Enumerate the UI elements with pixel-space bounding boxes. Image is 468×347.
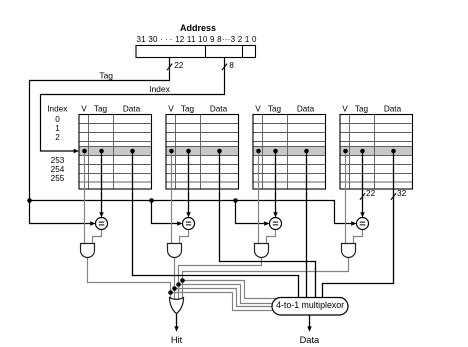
wire tag bank 4 to comparator: [362, 151, 364, 213]
arrow index into bank 1: [74, 149, 79, 153]
arrow tag into comparator 1: [99, 212, 103, 217]
cache bank 3 grid: [253, 115, 326, 190]
svg-text:32: 32: [397, 188, 407, 198]
svg-text:Tag: Tag: [99, 70, 113, 80]
arrow hit: [174, 326, 178, 331]
wire OR input stub 1: [170, 293, 172, 302]
and-gate G1: [81, 244, 95, 258]
node bank2 data: [217, 149, 222, 154]
node bank2 tag: [186, 149, 191, 154]
node bank1 V: [82, 149, 87, 154]
svg-text:Tag: Tag: [268, 105, 282, 114]
svg-text:Index: Index: [149, 84, 171, 94]
cache bank 2 grid: [166, 115, 239, 190]
wire comparator 3 output to AND: [267, 230, 276, 245]
svg-text:31 30 · · · 12 11 10 9 8···3 2: 31 30 · · · 12 11 10 9 8···3 2 1 0: [137, 35, 258, 44]
cache bank 4 border: [340, 115, 413, 190]
wire comparator 4 output to AND: [354, 230, 363, 245]
wire AND4 output to OR and mux select: [183, 258, 349, 299]
node tag bus 2: [149, 198, 154, 203]
comparator U1 =: [96, 218, 108, 230]
wire tag bank 2 to comparator: [188, 151, 190, 213]
wire tag field down to comparator 1: [30, 58, 170, 224]
cache bank 2 selected row highlight: [166, 147, 239, 156]
svg-text:8: 8: [229, 60, 234, 70]
cache bank 1 grid: [79, 115, 152, 190]
svg-text:22: 22: [366, 188, 376, 198]
svg-text:V: V: [168, 105, 174, 114]
cache bank 2 headers V Tag Data: [168, 105, 227, 114]
wire valid V bank 2 to AND: [171, 151, 173, 244]
svg-text:4-to-1 multiplexor: 4-to-1 multiplexor: [276, 300, 344, 310]
svg-text:Data: Data: [210, 105, 228, 114]
svg-text:V: V: [342, 105, 348, 114]
node bank3 tag: [273, 149, 278, 154]
comparator U4 =: [357, 218, 369, 230]
node bank1 tag: [99, 149, 104, 154]
bus slash 8: [222, 64, 227, 71]
cache bank 4 selected row highlight: [340, 147, 413, 156]
arrow tag into comparator 4: [360, 212, 364, 217]
wire OR input stub 2: [174, 289, 176, 303]
svg-text:2: 2: [55, 133, 60, 142]
node bank4 V: [343, 149, 348, 154]
svg-text:255: 255: [51, 174, 65, 183]
cache bank 3 headers V Tag Data: [255, 105, 314, 114]
wire AND3 output to OR and mux select: [179, 258, 283, 304]
svg-text:Data: Data: [297, 105, 315, 114]
arrow data out: [307, 326, 311, 331]
bus slash 22: [167, 64, 172, 71]
svg-text:Tag: Tag: [181, 105, 195, 114]
svg-text:Address: Address: [180, 23, 216, 33]
svg-text:253: 253: [51, 156, 65, 165]
node select 4: [180, 278, 185, 283]
or-gate Hit: [170, 298, 184, 314]
wire bus drop to comparator 3: [236, 201, 269, 224]
cache bank 3 selected row highlight: [253, 147, 326, 156]
bank4 data slash 32: [391, 193, 396, 200]
node tag bus 3: [233, 198, 238, 203]
4-to-1 multiplexor: [272, 298, 348, 316]
node select 2: [172, 286, 177, 291]
cache bank 3 border: [253, 115, 326, 190]
and-gate G2: [168, 244, 182, 258]
comparator U2 =: [183, 218, 195, 230]
wire tag bank 1 to comparator: [101, 151, 103, 213]
svg-text:Data: Data: [123, 105, 141, 114]
wire OR input stub 4: [182, 281, 184, 302]
arrow bus into comparator 4: [351, 221, 356, 225]
node select 3: [176, 282, 181, 287]
cache bank 1 border: [79, 115, 152, 190]
svg-text:Data: Data: [384, 105, 402, 114]
arrow bus into comparator 3: [264, 221, 269, 225]
wire data bank 4 to mux: [323, 151, 394, 299]
svg-text:Tag: Tag: [94, 105, 108, 114]
wire AND2 output to OR and mux select: [175, 258, 283, 307]
node select 1: [168, 290, 173, 295]
wire AND1 output to OR and mux select: [88, 258, 283, 311]
node bank1 data: [130, 149, 135, 154]
svg-text:Tag: Tag: [355, 105, 369, 114]
cache bank 1 selected row highlight: [79, 147, 152, 156]
svg-text:254: 254: [51, 165, 65, 174]
svg-text:1: 1: [55, 124, 60, 133]
wire valid V bank 1 to AND: [84, 151, 86, 244]
svg-text:Hit: Hit: [171, 335, 183, 345]
wire valid V bank 4 to AND: [345, 151, 347, 244]
and-gate G3: [255, 244, 269, 258]
node bank4 data: [391, 149, 396, 154]
svg-text:V: V: [81, 105, 87, 114]
node bank2 V: [169, 149, 174, 154]
arrow bus into comparator 2: [177, 221, 182, 225]
comparator U3 =: [270, 218, 282, 230]
wire comparator 2 output to AND: [180, 230, 189, 245]
wire data bank 3 to mux: [306, 151, 308, 299]
bank4 tag slash 22: [360, 193, 365, 200]
wire valid V bank 3 to AND: [258, 151, 260, 244]
cache bank 4 headers V Tag Data: [342, 105, 401, 114]
arrow bus into comparator 1: [90, 221, 95, 225]
cache bank 4 grid: [340, 115, 413, 190]
wire comparator 1 output to AND: [93, 230, 102, 245]
svg-text:V: V: [255, 105, 261, 114]
svg-text:0: 0: [55, 115, 60, 124]
wire tag bank 3 to comparator: [275, 151, 277, 213]
wire bus drop to comparator 2: [152, 201, 182, 224]
arrow tag into comparator 3: [273, 212, 277, 217]
wire data bank 2 to mux: [220, 151, 316, 299]
wire tag bus across to comparator 4: [30, 201, 356, 224]
svg-text:Data: Data: [300, 335, 320, 345]
node bank4 tag: [360, 149, 365, 154]
wire index field to bank 1 row: [41, 58, 225, 152]
svg-text:22: 22: [174, 60, 184, 70]
index row labels: [47, 105, 67, 183]
wire OR input stub 3: [178, 285, 180, 303]
node bank3 data: [304, 149, 309, 154]
node bank3 V: [256, 149, 261, 154]
and-gate G4: [342, 244, 356, 258]
svg-text:Index: Index: [47, 105, 67, 114]
node tag bus 1: [27, 198, 32, 203]
cache bank 2 border: [166, 115, 239, 190]
wire hit output: [176, 314, 178, 327]
cache bank 1 headers V Tag Data: [81, 105, 140, 114]
address register box: [136, 46, 256, 58]
wire data output: [309, 315, 311, 327]
wire data bank 1 to mux: [133, 151, 299, 299]
arrow tag into comparator 2: [186, 212, 190, 217]
